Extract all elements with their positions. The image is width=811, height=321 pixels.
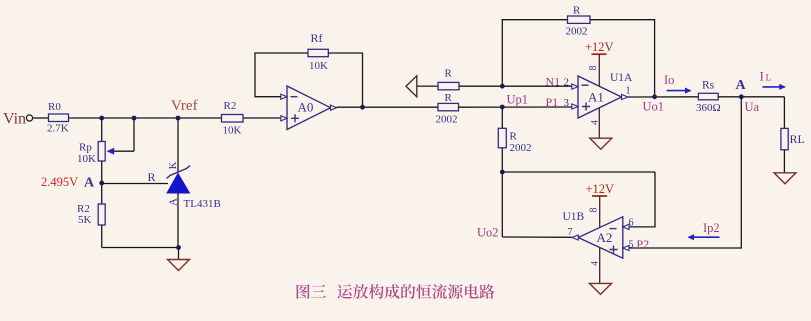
wire Rp to R2 (101, 161, 103, 204)
label U1A (610, 72, 633, 84)
Rp wiper arrow (107, 148, 134, 155)
pin number 2 (564, 76, 570, 88)
svg-text:A: A (84, 176, 95, 191)
svg-text:8: 8 (589, 208, 600, 213)
wire junction to A2 feedback top (502, 171, 655, 173)
junction Rp top (99, 116, 104, 121)
power +12V (A1) (585, 40, 614, 86)
wire RL to ground (783, 150, 785, 173)
wire N1 up to feedback R (502, 20, 567, 87)
A0 inverting input pin (281, 94, 287, 99)
svg-text:K: K (168, 161, 179, 169)
label TL431B (184, 198, 221, 210)
net label Vin (3, 111, 26, 128)
A2 pin 4 mark (591, 261, 601, 266)
terminal Vin (26, 115, 32, 121)
wire A1 pin4 to ground (598, 108, 600, 138)
resistor Rs (698, 93, 718, 100)
resistor R (top row) (438, 82, 459, 89)
A1 pin 2 inverting input (572, 84, 578, 89)
resistor R (2002 vertical) (498, 128, 506, 148)
junction Uo1 (652, 94, 657, 99)
value 2002 (feedback) (566, 26, 588, 38)
A0 non-inverting input pin (281, 116, 287, 121)
svg-text:Rs: Rs (702, 79, 715, 91)
current label Io (664, 73, 674, 87)
ground stem left (178, 248, 180, 260)
svg-text:L: L (766, 74, 772, 84)
label Rf (311, 31, 323, 45)
A2 pin 5 non-inverting input (623, 245, 629, 250)
net label Uo2 (477, 226, 499, 240)
label R2 (10K) (224, 100, 237, 112)
svg-text:N1: N1 (546, 74, 561, 88)
svg-text:TL431B: TL431B (184, 198, 221, 210)
resistor R0 (49, 114, 69, 122)
wire vertical R to junction (501, 148, 503, 172)
svg-text:P2: P2 (637, 237, 650, 251)
value 2.7K (47, 123, 69, 135)
svg-text:2002: 2002 (566, 26, 588, 38)
junction N1 (500, 84, 505, 89)
svg-text:Vref: Vref (171, 98, 198, 114)
svg-text:R: R (445, 92, 453, 104)
svg-text:1: 1 (626, 86, 631, 97)
current label Ip2 (703, 221, 720, 235)
svg-text:+12V: +12V (586, 182, 615, 196)
pin number 5 (629, 239, 634, 250)
wire A0 feedback left (255, 53, 308, 97)
TL431 cathode bar (167, 166, 191, 179)
voltage label 2.495V (41, 175, 78, 189)
arrow Ip2 (688, 234, 720, 240)
svg-text:7: 7 (568, 227, 573, 238)
junction node A (output) (739, 94, 744, 99)
wire Rs to RL (node A) (718, 96, 784, 98)
svg-text:5K: 5K (78, 214, 92, 226)
wire node A down to A2 +input (P2) (629, 97, 741, 248)
svg-text:P1: P1 (546, 95, 559, 109)
svg-text:Rf: Rf (311, 31, 323, 45)
pin number 7 (568, 227, 573, 238)
svg-text:U1A: U1A (610, 72, 633, 84)
label Rp (79, 142, 92, 154)
ground (A2) (590, 283, 612, 294)
svg-text:10K: 10K (77, 153, 96, 165)
svg-text:RL: RL (790, 132, 805, 146)
A1 pin 3 non-inverting input (572, 104, 578, 109)
wire feedback R to Uo1 (590, 20, 655, 97)
junction ground rail (176, 245, 181, 250)
op-amp A0 (287, 86, 331, 130)
pin number 3 (564, 97, 570, 109)
svg-text:R2: R2 (224, 100, 237, 112)
svg-text:R: R (510, 131, 518, 143)
junction Vref / TL431 cathode (176, 116, 181, 121)
label RL (790, 132, 805, 146)
svg-text:I: I (760, 69, 764, 84)
net label Uo1 (643, 100, 665, 114)
label R (vertical) (510, 131, 518, 143)
bottom ground rail wire (102, 247, 179, 249)
wire A1 output to Rs (628, 96, 699, 98)
pin label K (cathode) (168, 161, 179, 169)
svg-text:2002: 2002 (436, 114, 458, 126)
pin label R (TL431 ref) (148, 170, 156, 184)
svg-text:A1: A1 (588, 90, 604, 105)
wire node A to TL431 ref (102, 183, 168, 185)
svg-text:A: A (736, 78, 747, 93)
A2 pin 7 output (572, 235, 578, 240)
wire R0 to R2 (Vref net) (69, 117, 222, 119)
junction node A (99, 181, 104, 186)
wire Vin to R0 (33, 117, 49, 119)
svg-text:R: R (445, 68, 453, 80)
resistor R (2002, A1 feedback) (568, 16, 591, 23)
current label IL (760, 69, 764, 84)
svg-text:R0: R0 (48, 101, 61, 113)
svg-text:U1B: U1B (563, 211, 585, 223)
label U1B (563, 211, 585, 223)
svg-text:360Ω: 360Ω (696, 102, 721, 114)
pin 4 mark (591, 120, 601, 125)
input port arrow (left-pointing) (406, 76, 417, 97)
value 10K (Rp) (77, 153, 96, 165)
wire Vref to TL431 cathode (177, 118, 179, 173)
wire node A down to RL (783, 97, 785, 129)
junction Up1 (500, 105, 505, 110)
wire TL431 anode down (177, 193, 179, 248)
svg-text:Ua: Ua (745, 100, 760, 114)
junction A0 output (360, 105, 365, 110)
svg-text:2: 2 (564, 76, 570, 88)
value 360 ohm (696, 102, 721, 114)
junction A2 feedback (500, 170, 505, 175)
A2 pin 8 infinity mark (589, 208, 600, 213)
svg-text:3: 3 (564, 97, 570, 109)
svg-text:+12V: +12V (585, 40, 614, 54)
wire wiper to Vref (133, 118, 135, 151)
wire A2 pin4 to ground (599, 247, 601, 283)
net label P2 (637, 237, 650, 251)
svg-text:A0: A0 (298, 100, 314, 115)
svg-text:R: R (573, 5, 581, 17)
svg-text:Vin: Vin (3, 111, 26, 128)
net label Ua (745, 100, 760, 114)
wire R2 to ground rail (101, 225, 103, 248)
resistor RL (781, 128, 788, 149)
svg-text:10K: 10K (309, 60, 328, 72)
net label Up1 (507, 93, 529, 107)
svg-text:6: 6 (629, 218, 634, 229)
svg-text:10K: 10K (223, 125, 242, 137)
node label A (output) (736, 78, 747, 93)
ground (RL) (774, 173, 796, 184)
svg-text:2.7K: 2.7K (47, 123, 69, 135)
svg-text:8: 8 (588, 66, 599, 71)
wire Rf to A0 output (328, 53, 362, 107)
resistor Rf (308, 49, 328, 56)
value 2002 (vertical) (510, 142, 532, 154)
svg-text:Uo2: Uo2 (477, 226, 499, 240)
svg-text:2002: 2002 (510, 142, 532, 154)
wire A0 output to R (2002) (337, 106, 438, 108)
wire R to A1 inverting input (N1) (459, 85, 572, 87)
svg-text:Rp: Rp (79, 142, 92, 154)
op-amp A1 (U1A) (578, 76, 622, 118)
wire port to R (417, 85, 438, 87)
value 10K (R2) (223, 125, 242, 137)
label Rs (702, 79, 715, 91)
pin label A (anode) (168, 198, 180, 206)
svg-text:5: 5 (629, 239, 634, 250)
net label P1 (546, 95, 559, 109)
label R0 (48, 101, 61, 113)
svg-text:R: R (148, 170, 156, 184)
caption 图三 运放构成的恒流源电路 (297, 284, 495, 299)
label R (top row) (445, 68, 453, 80)
wire junction down to Uo2 (501, 172, 503, 237)
wire Uo2 to A2 output (502, 236, 572, 238)
value 10K (Rf) (309, 60, 328, 72)
potentiometer Rp (98, 142, 105, 162)
net label Vref (171, 98, 198, 114)
svg-text:Up1: Up1 (507, 93, 529, 107)
wire R2 to A0 +input (243, 117, 281, 119)
wire feedback down to A2 pin 6 (629, 172, 655, 227)
pin number 1 (626, 86, 631, 97)
svg-text:Io: Io (664, 73, 674, 87)
wire R to A1 non-inverting input (P1) (459, 106, 572, 108)
ground (left) (168, 260, 190, 271)
pin 8 infinity mark (588, 66, 599, 71)
junction wiper (132, 116, 137, 121)
A1 pin 1 output (622, 94, 628, 99)
arrow Io (667, 88, 692, 94)
pin number 6 (629, 218, 634, 229)
svg-text:2.495V: 2.495V (41, 175, 78, 189)
ground (A1) (590, 138, 612, 149)
node label A (84, 176, 95, 191)
label R (2002 row) (445, 92, 453, 104)
resistor R (2002, A0 output row) (438, 103, 459, 110)
TL431 U? shunt regulator TL431B (167, 174, 190, 194)
svg-text:Uo1: Uo1 (643, 100, 665, 114)
svg-text:4: 4 (591, 261, 601, 266)
wire Up1 to R (2002 vertical) (501, 107, 503, 128)
A2 pin 6 inverting input (623, 224, 629, 229)
wire Vref to Rp (101, 118, 103, 142)
value 5K (78, 214, 92, 226)
arrow IL (763, 84, 786, 90)
power +12V (A2) (586, 182, 615, 228)
label R2 (77, 203, 90, 215)
resistor R2 (10K) (222, 115, 244, 123)
op-amp A2 (U1B) (578, 217, 623, 258)
A0 output pin (331, 105, 337, 110)
value 2002 (row) (436, 114, 458, 126)
label R (feedback) (573, 5, 581, 17)
svg-text:Ip2: Ip2 (703, 221, 720, 235)
svg-text:A2: A2 (597, 230, 613, 245)
resistor R2 (5K) (98, 204, 105, 225)
net label N1 (546, 74, 561, 88)
